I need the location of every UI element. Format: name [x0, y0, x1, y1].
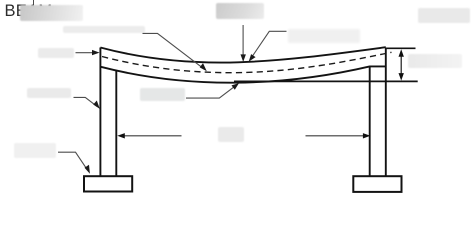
leader H	[249, 31, 287, 61]
title text BE	[5, 2, 53, 21]
original position line	[234, 80, 418, 82]
label box TR	[418, 8, 470, 23]
footing right	[353, 176, 401, 192]
label box E	[140, 88, 185, 101]
label box A (covers title)	[20, 5, 83, 22]
leader J	[76, 50, 100, 55]
label box C	[27, 88, 72, 99]
leader G arrow	[241, 25, 246, 62]
beam bottom edge	[101, 66, 386, 82]
leader D	[58, 152, 90, 174]
leader B	[143, 33, 207, 71]
dimension span left segment	[117, 133, 181, 138]
column left inner edge	[115, 70, 117, 176]
dimension height vertical	[399, 49, 404, 80]
beam neutral axis dashed	[102, 52, 392, 72]
column right outer edge	[385, 48, 387, 176]
label box J	[38, 48, 74, 58]
beam top edge	[100, 47, 385, 62]
leader E	[186, 83, 239, 98]
label box H	[288, 29, 360, 43]
label box I	[408, 54, 463, 68]
label box B	[63, 26, 145, 33]
column left outer edge	[99, 48, 101, 177]
top extension line	[386, 47, 416, 49]
caret line top	[33, 0, 34, 5]
label box G	[216, 3, 264, 19]
label box F	[218, 127, 245, 142]
label box D	[14, 143, 56, 159]
column right inner edge	[369, 66, 371, 176]
leader C	[74, 97, 100, 109]
dimension span right segment	[306, 133, 371, 138]
footing left	[84, 176, 132, 191]
